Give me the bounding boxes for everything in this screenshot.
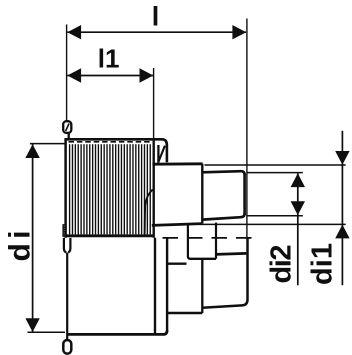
lower step B bottom edge and right end face xyxy=(202,238,247,308)
arrow di1 up (below bottom ext) xyxy=(335,225,349,239)
extension line bottom (for di2) xyxy=(248,215,303,217)
sleeve right edge upper xyxy=(152,141,154,238)
arrow di2 up xyxy=(291,173,305,187)
arrow l1 right xyxy=(140,68,154,82)
lower bore vertical 2 (from step2 bottom) xyxy=(215,223,217,259)
step2 bottom edge xyxy=(202,214,244,220)
extension line top (for di1) xyxy=(205,164,346,166)
dimension line di xyxy=(32,144,34,332)
ribs (knurling) xyxy=(70,144,151,234)
arrow di top xyxy=(25,144,39,158)
dimension line l xyxy=(67,31,246,33)
pouch notch xyxy=(66,249,69,253)
extension line left (for l and l1) xyxy=(66,25,68,121)
lower bore line 3 xyxy=(216,253,246,254)
sleeve inner bore hidden line (dashed) xyxy=(69,141,153,143)
lower bore line 2 xyxy=(190,258,217,260)
extension line top (for di) xyxy=(30,143,65,145)
lower step A bottom edge xyxy=(167,312,202,315)
clamp stem xyxy=(66,253,68,342)
svg-text:di2: di2 xyxy=(266,245,298,284)
extension line right (for l1) xyxy=(153,68,155,139)
sleeve outer end vertical (lower) xyxy=(166,238,168,331)
extension line right (for l) xyxy=(246,19,248,239)
clamp pouch (left, below sleeve) xyxy=(64,238,71,253)
lower step middle vertical xyxy=(201,259,203,313)
arrow di bottom xyxy=(25,318,39,332)
extension line top (for di2) xyxy=(248,172,303,174)
step1 top edge xyxy=(152,162,202,165)
inner cone arc xyxy=(145,190,153,236)
step2 right end face xyxy=(243,174,246,215)
svg-text:l1: l1 xyxy=(98,44,120,74)
lower bore line 1 xyxy=(167,263,186,265)
arrow di2 down xyxy=(291,201,305,215)
rib bottom band xyxy=(66,234,154,237)
lip inner vertical xyxy=(157,145,159,163)
arrow l right xyxy=(232,25,246,39)
step2 top edge xyxy=(202,171,244,175)
svg-text:l: l xyxy=(152,2,160,32)
sleeve right edge lower xyxy=(154,238,156,334)
step1 bottom edge xyxy=(152,224,203,226)
sleeve bottom edge xyxy=(67,330,167,334)
sleeve top edge with lip corner xyxy=(65,139,166,162)
arrow l left xyxy=(67,25,81,39)
extension line bottom (for di1) xyxy=(200,223,346,225)
centerline (dashed) xyxy=(163,237,255,239)
step boundary vertical xyxy=(201,164,203,224)
bottom ring eyelet xyxy=(63,340,71,354)
top eyelet stem xyxy=(68,133,70,141)
clamp knurled tab (left) xyxy=(63,225,66,236)
dimension line di1 xyxy=(341,131,343,286)
svg-text:di1: di1 xyxy=(307,243,339,285)
lip inner diagonal xyxy=(159,146,165,162)
lower bore vertical (from step1 bottom) xyxy=(188,224,191,259)
arrow l1 left xyxy=(67,68,81,82)
dimension line l1 xyxy=(67,75,153,77)
top eyelet xyxy=(63,121,71,133)
svg-text:di: di xyxy=(4,231,37,262)
dimension line di2 xyxy=(297,173,299,285)
extension line bottom (for di) xyxy=(28,331,66,333)
top eyelet slash xyxy=(66,123,70,131)
sleeve left edge xyxy=(64,138,67,238)
arrow di1 down (above top ext) xyxy=(335,151,349,165)
